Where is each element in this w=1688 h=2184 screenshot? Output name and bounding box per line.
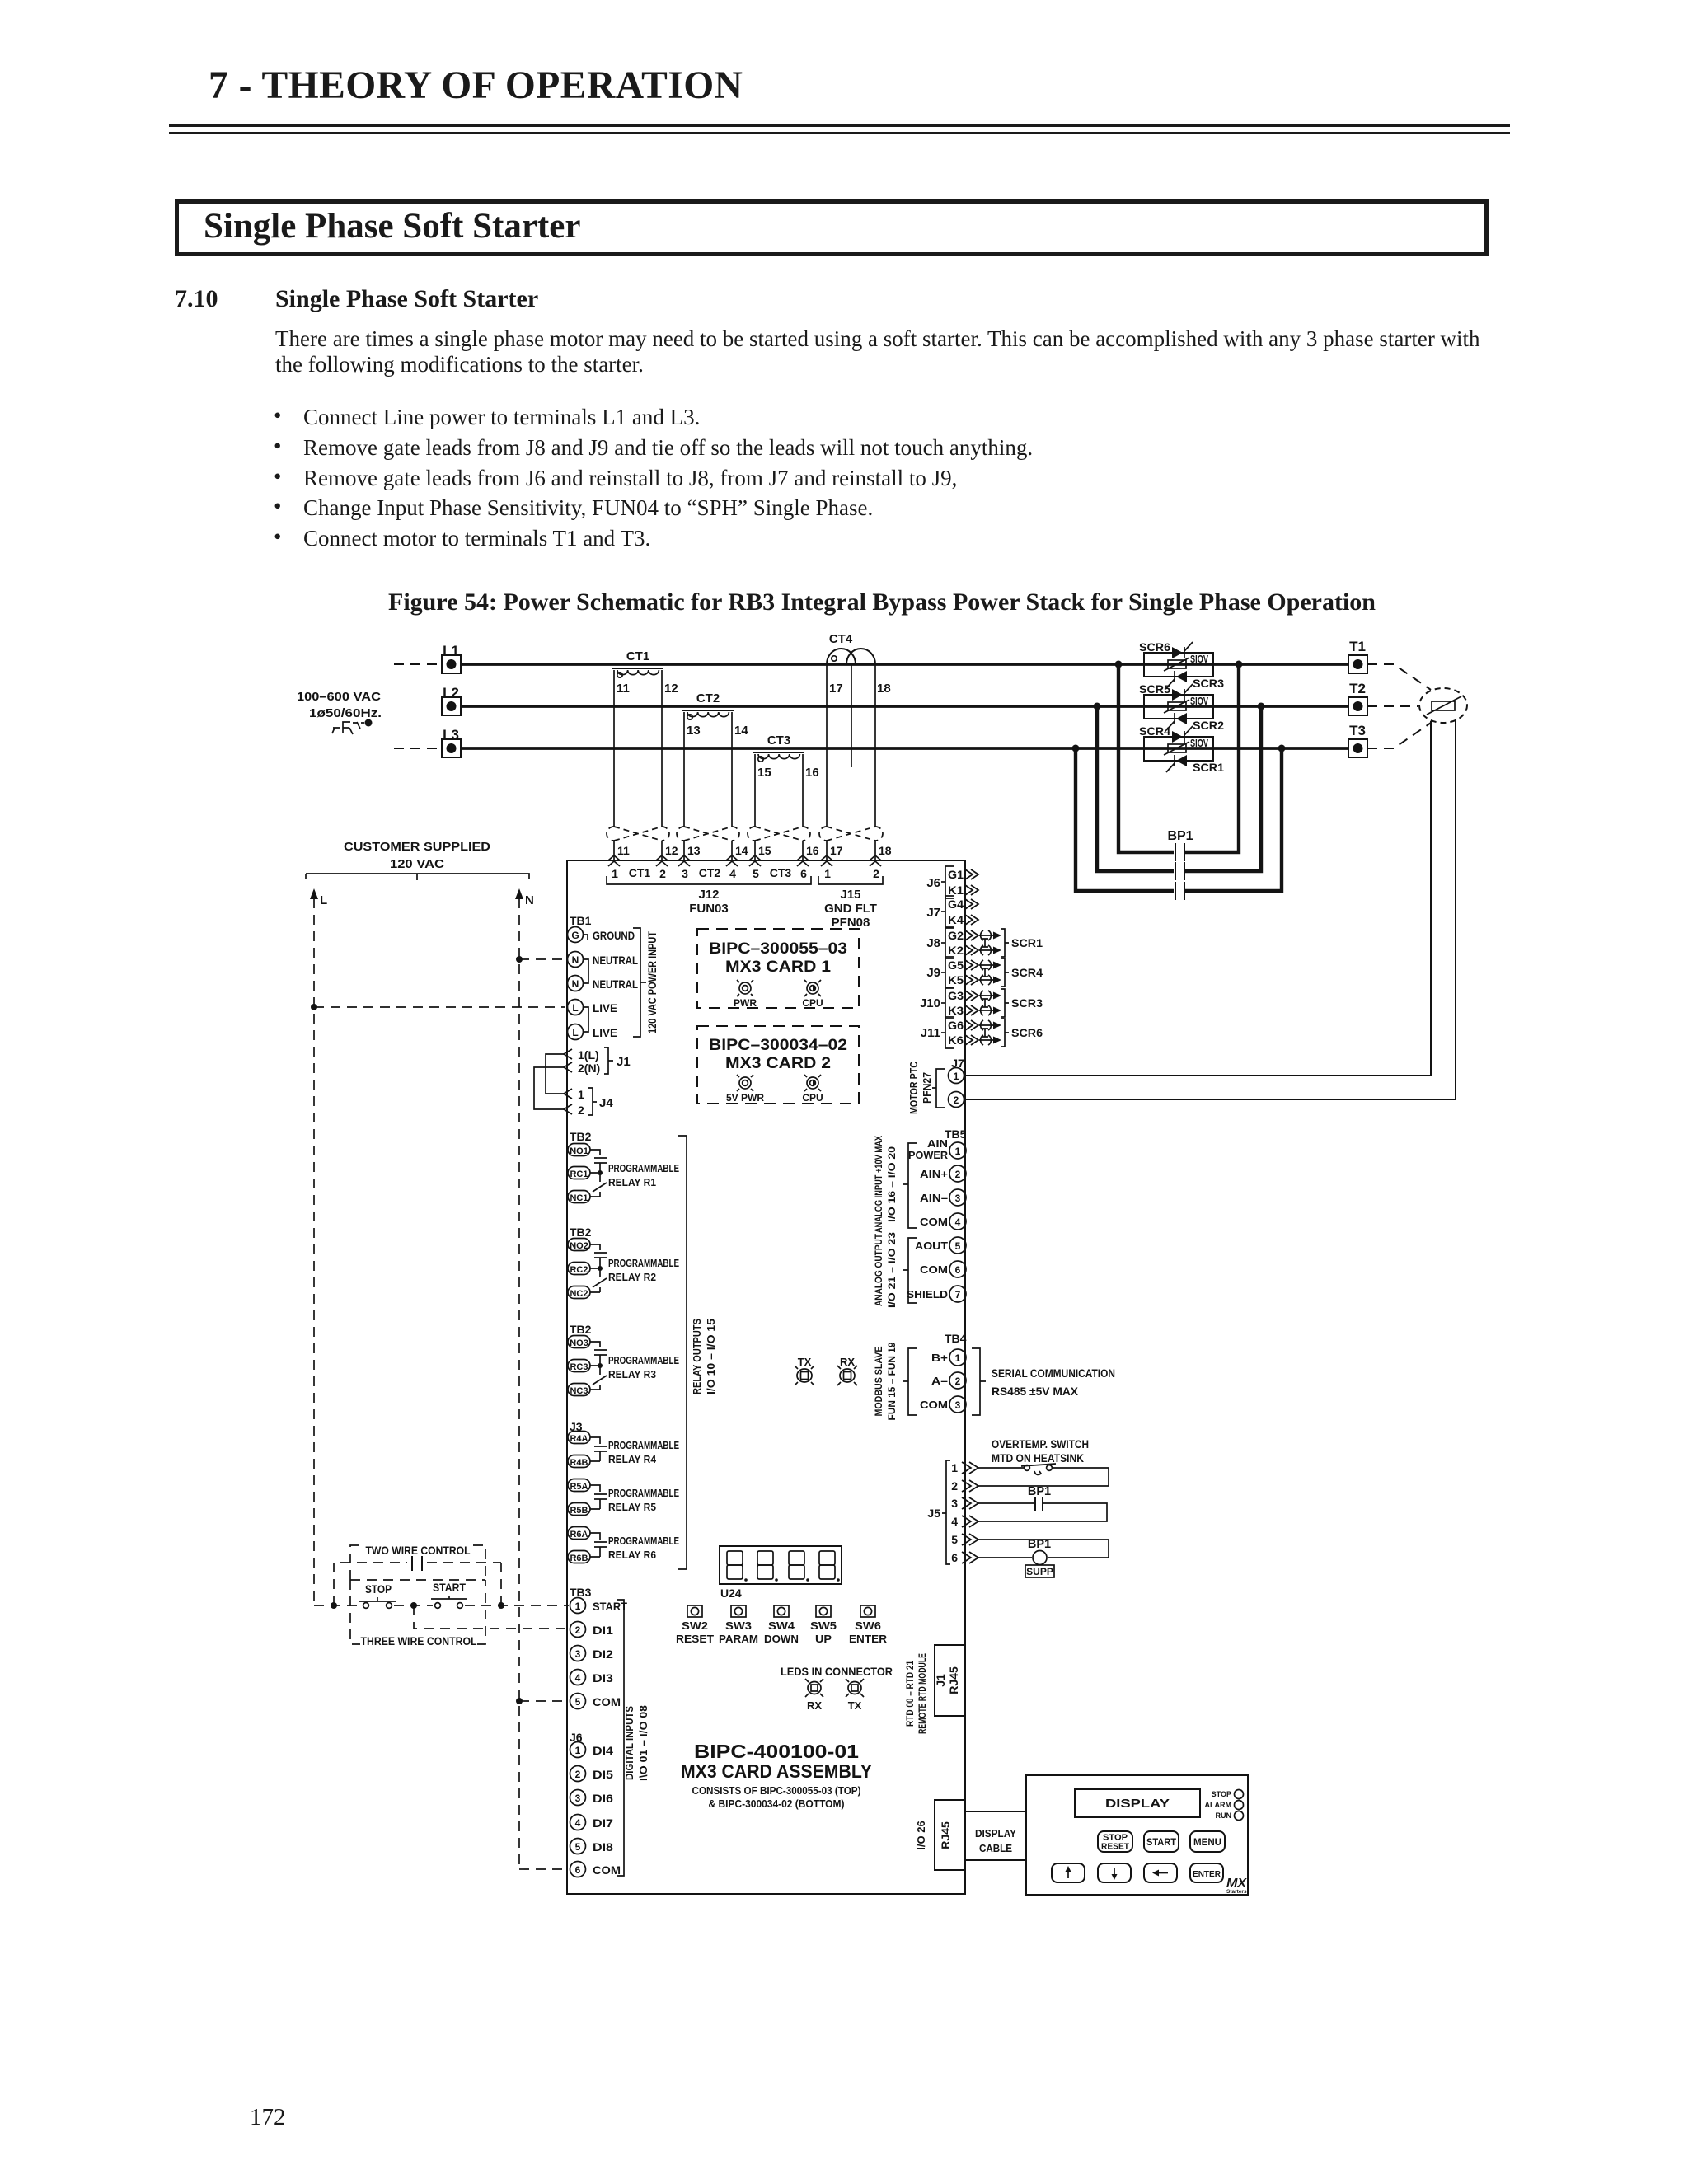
MX3 card 1 dashed box xyxy=(697,929,859,1008)
svg-text:1: 1 xyxy=(612,867,618,880)
svg-text:DI2: DI2 xyxy=(593,1648,613,1661)
SCR pair block phase2 xyxy=(1139,683,1224,732)
svg-text:TB2: TB2 xyxy=(570,1226,592,1239)
svg-text:G2: G2 xyxy=(948,929,964,942)
svg-text:FUN 15 – FUN 19: FUN 15 – FUN 19 xyxy=(886,1342,898,1420)
svg-text:SHIELD: SHIELD xyxy=(907,1288,948,1301)
wire N to COM6 xyxy=(519,1868,569,1870)
two wire control branch xyxy=(334,1563,501,1605)
svg-text:SW3: SW3 xyxy=(725,1619,752,1632)
svg-text:MODBUS SLAVE: MODBUS SLAVE xyxy=(873,1347,884,1417)
svg-text:18: 18 xyxy=(877,682,891,696)
svg-text:R5A: R5A xyxy=(570,1482,588,1492)
node N-COM5 junction xyxy=(516,1698,523,1704)
svg-text:MX3 CARD 1: MX3 CARD 1 xyxy=(725,958,831,976)
svg-text:RELAY OUTPUTS: RELAY OUTPUTS xyxy=(692,1319,703,1394)
svg-text:R6B: R6B xyxy=(570,1554,588,1563)
svg-text:J4: J4 xyxy=(599,1096,613,1110)
svg-text:SCR2: SCR2 xyxy=(1193,719,1224,732)
wire CT4 leads xyxy=(827,664,875,860)
svg-text:SCR4: SCR4 xyxy=(1011,966,1043,979)
svg-text:120 VAC: 120 VAC xyxy=(390,858,445,871)
svg-text:4: 4 xyxy=(729,867,736,880)
terminal T2 xyxy=(1348,681,1367,715)
svg-text:CONSISTS OF BIPC-300055-03 (TO: CONSISTS OF BIPC-300055-03 (TOP) xyxy=(692,1785,861,1797)
svg-text:NEUTRAL: NEUTRAL xyxy=(593,954,638,967)
svg-text:DI7: DI7 xyxy=(593,1817,613,1830)
LED TX connector xyxy=(846,1679,864,1712)
node control junction C xyxy=(498,1602,504,1609)
connector J4 xyxy=(564,1088,613,1117)
node L-live junction xyxy=(311,1004,317,1010)
source label 100-600 VAC xyxy=(297,690,382,720)
svg-text:REMOTE RTD MODULE: REMOTE RTD MODULE xyxy=(917,1653,928,1734)
button up arrow xyxy=(1052,1863,1085,1882)
svg-text:G6: G6 xyxy=(948,1019,964,1032)
analog input bracket xyxy=(873,1136,917,1233)
chassis ground symbol xyxy=(332,719,373,735)
customer supplied 120 VAC label xyxy=(306,841,529,880)
svg-text:N: N xyxy=(525,893,534,907)
svg-text:R4B: R4B xyxy=(570,1458,588,1468)
svg-text:6: 6 xyxy=(955,1264,961,1276)
svg-text:J1: J1 xyxy=(934,1674,947,1687)
J12 connector pin chevrons xyxy=(608,855,809,866)
svg-text:NC1: NC1 xyxy=(570,1193,588,1203)
TB5 pin 6 COM xyxy=(920,1261,966,1277)
J3 relay R4 group xyxy=(568,1420,679,1468)
node phase2 right bypass xyxy=(1258,703,1265,710)
svg-text:5: 5 xyxy=(955,1240,961,1252)
svg-text:16: 16 xyxy=(805,766,819,780)
figure caption xyxy=(224,588,1540,616)
two wire control box xyxy=(350,1544,485,1580)
svg-text:GND FLT: GND FLT xyxy=(824,902,877,916)
svg-text:J8: J8 xyxy=(926,936,940,950)
display screen xyxy=(1075,1789,1200,1817)
svg-text:PFN08: PFN08 xyxy=(832,916,870,930)
wire start branch to DI1 xyxy=(414,1605,569,1629)
button MENU xyxy=(1190,1831,1225,1852)
svg-text:MX3 CARD ASSEMBLY: MX3 CARD ASSEMBLY xyxy=(681,1760,872,1782)
svg-text:J7: J7 xyxy=(926,906,940,920)
svg-text:1: 1 xyxy=(575,1601,581,1612)
svg-text:PFN27: PFN27 xyxy=(921,1072,933,1104)
wire CT2 leads xyxy=(684,712,732,860)
TB5 pin 2 AIN+ xyxy=(920,1165,966,1182)
svg-text:CABLE: CABLE xyxy=(979,1842,1012,1854)
LED CPU card1 xyxy=(802,980,823,1009)
svg-text:I/O 21 – I/O 23: I/O 21 – I/O 23 xyxy=(886,1232,898,1308)
node control junction B xyxy=(410,1602,417,1609)
SCR pair block phase1 xyxy=(1139,641,1225,690)
svg-text:1: 1 xyxy=(955,1146,961,1157)
wire phase 3 xyxy=(461,747,1348,750)
gate leads J10 to SCR3 xyxy=(979,989,1043,1017)
svg-text:SCR3: SCR3 xyxy=(1011,996,1043,1010)
svg-text:2: 2 xyxy=(954,1094,959,1106)
svg-text:RELAY R3: RELAY R3 xyxy=(608,1368,656,1380)
svg-text:RELAY R5: RELAY R5 xyxy=(608,1501,656,1513)
svg-text:STOP: STOP xyxy=(365,1583,392,1596)
svg-text:G1: G1 xyxy=(948,868,964,881)
svg-text:LIVE: LIVE xyxy=(593,1027,617,1039)
svg-text:15: 15 xyxy=(757,766,771,780)
connector J5 xyxy=(927,1460,978,1564)
svg-text:SW4: SW4 xyxy=(768,1619,795,1632)
TB1 terminal N2 xyxy=(568,959,639,991)
digital inputs bracket xyxy=(617,1600,649,1876)
svg-text:TB3: TB3 xyxy=(570,1586,592,1599)
svg-text:CT3: CT3 xyxy=(770,866,792,879)
svg-text:UP: UP xyxy=(815,1633,832,1645)
TB1 terminal L2 xyxy=(568,1007,618,1040)
svg-text:RX: RX xyxy=(840,1356,855,1368)
display keypad unit xyxy=(1026,1775,1248,1895)
svg-text:SCR1: SCR1 xyxy=(1193,762,1225,774)
svg-text:L: L xyxy=(572,1002,578,1014)
svg-text:SCR6: SCR6 xyxy=(1139,641,1171,654)
connector J11 gate pins xyxy=(921,1017,978,1048)
svg-text:CPU: CPU xyxy=(802,997,823,1009)
svg-text:6: 6 xyxy=(951,1551,958,1564)
svg-text:5: 5 xyxy=(575,1696,581,1708)
connector J1 xyxy=(564,1047,631,1075)
svg-text:RS485 ±5V MAX: RS485 ±5V MAX xyxy=(992,1385,1078,1398)
svg-text:RELAY R4: RELAY R4 xyxy=(608,1453,657,1465)
svg-text:ANALOG INPUT +10V MAX: ANALOG INPUT +10V MAX xyxy=(873,1136,884,1233)
SCR pair block phase3 xyxy=(1139,725,1225,774)
svg-text:I/O 16 – I/O 20: I/O 16 – I/O 20 xyxy=(886,1146,898,1222)
svg-text:R4A: R4A xyxy=(570,1434,588,1444)
svg-text:STOP: STOP xyxy=(1212,1790,1231,1798)
TB5 pin 5 AOUT xyxy=(915,1237,966,1254)
TB1 terminal L1 xyxy=(568,1000,618,1015)
svg-text:5: 5 xyxy=(753,867,759,880)
svg-text:1: 1 xyxy=(575,1745,581,1756)
svg-text:L2: L2 xyxy=(443,685,459,701)
motor PTC circle xyxy=(1419,688,1467,723)
wire T3 to motor xyxy=(1367,723,1431,748)
connector pin labels 11-18 xyxy=(617,844,892,857)
svg-text:2: 2 xyxy=(955,1376,961,1387)
svg-text:R6A: R6A xyxy=(570,1530,588,1540)
TB4 pin 1 B+ xyxy=(931,1349,966,1366)
svg-text:ALARM: ALARM xyxy=(1205,1801,1232,1809)
wire phase 1 xyxy=(461,663,1348,666)
svg-text:RTD 00 – RTD 21: RTD 00 – RTD 21 xyxy=(904,1661,916,1727)
svg-text:CT3: CT3 xyxy=(767,733,790,748)
svg-text:15: 15 xyxy=(758,844,771,857)
svg-text:3: 3 xyxy=(951,1497,958,1510)
svg-text:11: 11 xyxy=(617,682,630,696)
svg-text:G: G xyxy=(571,930,579,941)
svg-text:SW6: SW6 xyxy=(855,1619,881,1632)
TB5 pin 4 COM xyxy=(920,1213,966,1230)
svg-text:DIGITAL INPUTS: DIGITAL INPUTS xyxy=(624,1706,635,1780)
svg-text:6: 6 xyxy=(800,867,807,880)
svg-text:COM: COM xyxy=(920,1399,948,1411)
svg-text:BIPC–300055–03: BIPC–300055–03 xyxy=(709,940,847,958)
wire N to neutral xyxy=(519,958,565,960)
TB2 relay R3 group xyxy=(568,1323,679,1396)
svg-text:LIVE: LIVE xyxy=(593,1002,617,1015)
wire T2 to motor xyxy=(1367,705,1418,707)
svg-text:ENTER: ENTER xyxy=(849,1633,888,1645)
connector J7 gate pins xyxy=(926,896,978,928)
wire CT1 leads xyxy=(614,670,662,860)
svg-text:COM: COM xyxy=(920,1263,948,1276)
CT4 xyxy=(827,632,891,696)
svg-text:1ø50/60Hz.: 1ø50/60Hz. xyxy=(309,706,382,720)
TB3 terminals xyxy=(570,1586,628,1709)
svg-text:AIN: AIN xyxy=(927,1137,948,1150)
TB5 pin 7 SHIELD xyxy=(907,1286,966,1302)
svg-text:3: 3 xyxy=(955,1399,961,1411)
svg-text:1: 1 xyxy=(824,867,831,880)
button ENTER xyxy=(1190,1863,1223,1882)
TB2 relay R2 group xyxy=(568,1226,679,1299)
node phase1 left bypass xyxy=(1115,661,1123,668)
svg-text:DI8: DI8 xyxy=(593,1841,614,1854)
svg-text:DI4: DI4 xyxy=(593,1745,614,1757)
BP1 coil loop xyxy=(978,1538,1109,1577)
CT3 xyxy=(753,733,819,780)
svg-text:MOTOR PTC: MOTOR PTC xyxy=(908,1062,920,1114)
svg-text:DI6: DI6 xyxy=(593,1793,614,1805)
svg-text:2(N): 2(N) xyxy=(578,1062,600,1075)
svg-text:START: START xyxy=(433,1582,467,1594)
svg-text:14: 14 xyxy=(735,844,748,857)
wire motor PTC lead 1 xyxy=(965,721,1431,1076)
relay outputs bracket xyxy=(678,1136,717,1569)
svg-text:NO3: NO3 xyxy=(570,1338,588,1348)
svg-text:L: L xyxy=(572,1027,578,1038)
MX3 board outline xyxy=(567,860,965,1894)
bullet list xyxy=(274,403,281,429)
stop pushbutton xyxy=(359,1583,396,1608)
svg-text:CT2: CT2 xyxy=(699,866,721,879)
svg-text:SERIAL COMMUNICATION: SERIAL COMMUNICATION xyxy=(992,1367,1115,1380)
svg-text:SIOV: SIOV xyxy=(1190,654,1208,665)
LED TX modbus xyxy=(795,1356,814,1385)
svg-text:& BIPC-300034-02 (BOTTOM): & BIPC-300034-02 (BOTTOM) xyxy=(709,1798,845,1810)
svg-text:CT4: CT4 xyxy=(829,632,853,646)
svg-text:NO1: NO1 xyxy=(570,1146,588,1156)
svg-text:L: L xyxy=(320,893,327,907)
svg-text:7: 7 xyxy=(955,1289,961,1301)
connector J1 RJ45 box xyxy=(934,1645,965,1716)
svg-text:SCR1: SCR1 xyxy=(1011,936,1043,949)
svg-text:17: 17 xyxy=(830,844,843,857)
svg-text:NC2: NC2 xyxy=(570,1289,588,1299)
svg-text:1: 1 xyxy=(955,1352,961,1364)
svg-text:SCR5: SCR5 xyxy=(1139,683,1171,696)
svg-text:BIPC–300034–02: BIPC–300034–02 xyxy=(709,1037,847,1054)
svg-text:13: 13 xyxy=(687,844,701,857)
svg-text:LEDS IN CONNECTOR: LEDS IN CONNECTOR xyxy=(781,1666,893,1678)
pushbutton SW3 xyxy=(719,1605,758,1645)
svg-text:BP1: BP1 xyxy=(1028,1485,1051,1498)
LED CPU card2 xyxy=(802,1075,823,1104)
two wire contact xyxy=(412,1556,422,1571)
svg-text:100–600 VAC: 100–600 VAC xyxy=(297,690,381,704)
LED STOP xyxy=(1212,1790,1244,1799)
pushbutton SW4 xyxy=(764,1605,799,1645)
svg-text:Starters: Starters xyxy=(1226,1889,1247,1895)
BP1 contact phase3 wiring xyxy=(1076,748,1282,891)
terminal L3 xyxy=(394,727,461,757)
svg-text:RUN: RUN xyxy=(1216,1811,1232,1820)
svg-text:OVERTEMP. SWITCH: OVERTEMP. SWITCH xyxy=(992,1438,1089,1451)
modbus slave bracket xyxy=(873,1342,917,1420)
svg-text:DISPLAY: DISPLAY xyxy=(975,1827,1016,1840)
section number xyxy=(175,285,218,313)
svg-text:I/O 26: I/O 26 xyxy=(915,1821,927,1849)
svg-text:I\O 01 – I/O 08: I\O 01 – I/O 08 xyxy=(638,1705,649,1781)
LED PWR card1 xyxy=(734,980,757,1009)
svg-text:2: 2 xyxy=(873,867,879,880)
svg-text:J15: J15 xyxy=(840,888,860,902)
analog output bracket xyxy=(873,1232,917,1308)
svg-text:COM: COM xyxy=(593,1696,621,1708)
svg-text:SIOV: SIOV xyxy=(1190,738,1208,749)
CT1 xyxy=(612,649,678,696)
svg-text:3: 3 xyxy=(575,1793,581,1804)
gate leads J8 to SCR1 xyxy=(979,929,1043,957)
svg-text:RC1: RC1 xyxy=(570,1169,588,1179)
wire CT3 leads xyxy=(755,754,803,860)
svg-text:J11: J11 xyxy=(921,1026,940,1040)
svg-text:AOUT: AOUT xyxy=(915,1240,948,1252)
svg-text:3: 3 xyxy=(955,1193,961,1204)
serial communication bracket xyxy=(972,1348,1115,1415)
svg-text:PARAM: PARAM xyxy=(719,1633,758,1645)
svg-text:14: 14 xyxy=(734,724,748,738)
pushbutton SW2 xyxy=(676,1605,714,1645)
pushbutton SW5 xyxy=(810,1605,837,1645)
button left arrow xyxy=(1144,1863,1177,1882)
LED ALARM xyxy=(1205,1801,1244,1810)
node control junction A xyxy=(331,1602,337,1609)
svg-text:2: 2 xyxy=(578,1104,584,1117)
node phase2 left bypass xyxy=(1094,703,1101,710)
TB1 terminal N1 xyxy=(568,952,639,968)
svg-text:SCR4: SCR4 xyxy=(1139,725,1171,738)
svg-text:I/O 10 – I/O 15: I/O 10 – I/O 15 xyxy=(706,1319,717,1394)
svg-text:PWR: PWR xyxy=(734,997,757,1009)
svg-text:CT1: CT1 xyxy=(626,649,649,663)
terminal L1 xyxy=(394,643,461,673)
node phase3 left bypass xyxy=(1072,745,1080,752)
svg-text:4: 4 xyxy=(955,1216,961,1228)
gate leads J11 to SCR6 xyxy=(979,1019,1043,1047)
overtemp switch label xyxy=(992,1438,1089,1465)
svg-text:K6: K6 xyxy=(948,1033,964,1047)
svg-text:TWO WIRE CONTROL: TWO WIRE CONTROL xyxy=(366,1544,471,1557)
svg-text:RC3: RC3 xyxy=(570,1362,588,1372)
svg-text:5: 5 xyxy=(951,1533,958,1546)
MX logo xyxy=(1226,1877,1247,1895)
BP1 contact phase3 xyxy=(1175,882,1184,900)
svg-text:TB2: TB2 xyxy=(570,1130,592,1143)
svg-text:120 VAC POWER INPUT: 120 VAC POWER INPUT xyxy=(646,930,659,1033)
svg-text:4: 4 xyxy=(575,1672,581,1684)
svg-text:DI5: DI5 xyxy=(593,1769,614,1781)
svg-text:START: START xyxy=(593,1601,628,1613)
svg-text:G5: G5 xyxy=(948,958,964,972)
twisted pair CT2 xyxy=(677,827,739,841)
svg-text:T1: T1 xyxy=(1349,639,1366,654)
svg-text:L1: L1 xyxy=(443,643,459,658)
svg-text:CT2: CT2 xyxy=(696,691,720,705)
svg-text:J12: J12 xyxy=(698,888,719,902)
svg-text:TX: TX xyxy=(848,1699,862,1712)
svg-text:2: 2 xyxy=(951,1479,958,1493)
svg-text:K3: K3 xyxy=(948,1004,964,1017)
svg-text:FUN03: FUN03 xyxy=(689,902,729,916)
wire N to COM5 xyxy=(519,1700,569,1702)
page number xyxy=(250,2104,286,2131)
node phase1 right bypass xyxy=(1236,661,1243,668)
svg-text:NO2: NO2 xyxy=(570,1241,588,1251)
svg-text:CT1: CT1 xyxy=(629,866,651,879)
connector J9 gate pins xyxy=(926,957,978,988)
svg-text:1: 1 xyxy=(954,1071,959,1082)
svg-text:11: 11 xyxy=(617,844,630,857)
svg-text:T2: T2 xyxy=(1349,681,1366,696)
svg-text:DI1: DI1 xyxy=(593,1624,614,1637)
terminal T3 xyxy=(1348,723,1367,757)
svg-text:PROGRAMMABLE: PROGRAMMABLE xyxy=(608,1354,679,1366)
wire control main dashed xyxy=(314,1605,569,1606)
svg-text:PROGRAMMABLE: PROGRAMMABLE xyxy=(608,1487,679,1499)
svg-text:1: 1 xyxy=(578,1088,584,1101)
svg-text:17: 17 xyxy=(829,682,843,696)
terminal L2 xyxy=(442,685,461,715)
wire J1-1 to J4-1 xyxy=(546,1054,565,1094)
svg-text:MENU: MENU xyxy=(1193,1838,1221,1848)
svg-text:CUSTOMER SUPPLIED: CUSTOMER SUPPLIED xyxy=(344,841,490,854)
svg-text:1(L): 1(L) xyxy=(578,1048,599,1062)
svg-text:K4: K4 xyxy=(948,913,964,926)
svg-text:SIOV: SIOV xyxy=(1190,696,1208,707)
LED RUN xyxy=(1216,1811,1244,1821)
svg-text:N: N xyxy=(572,954,579,966)
BP1 aux contact loop xyxy=(978,1485,1107,1521)
TB5 pin 1 AIN POWER xyxy=(908,1137,966,1161)
TB4 pin 2 A- xyxy=(931,1372,966,1389)
svg-text:TX: TX xyxy=(798,1356,812,1368)
svg-text:DI3: DI3 xyxy=(593,1672,614,1685)
svg-text:18: 18 xyxy=(879,844,892,857)
connector J8 gate pins xyxy=(926,927,978,958)
LED RX modbus xyxy=(837,1356,857,1385)
svg-text:K2: K2 xyxy=(948,944,964,957)
svg-text:N: N xyxy=(572,978,579,990)
svg-text:RELAY R2: RELAY R2 xyxy=(608,1271,656,1283)
svg-text:COM: COM xyxy=(593,1864,621,1877)
svg-text:3: 3 xyxy=(575,1648,581,1660)
svg-text:DISPLAY: DISPLAY xyxy=(1105,1797,1170,1811)
svg-text:PROGRAMMABLE: PROGRAMMABLE xyxy=(608,1439,679,1451)
svg-text:STOP: STOP xyxy=(1103,1834,1128,1843)
svg-text:T3: T3 xyxy=(1349,723,1366,738)
svg-text:U24: U24 xyxy=(720,1586,742,1600)
svg-text:J10: J10 xyxy=(920,996,940,1010)
svg-text:TB2: TB2 xyxy=(570,1323,592,1336)
button STOP RESET xyxy=(1098,1831,1132,1852)
